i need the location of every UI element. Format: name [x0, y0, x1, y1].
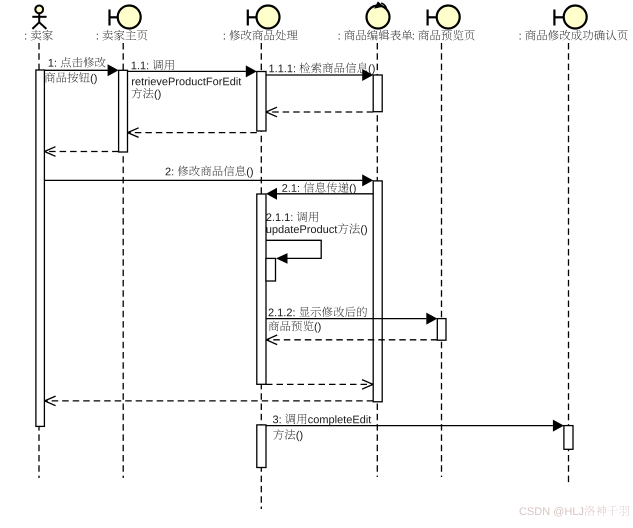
message 1.1.1 label — [269, 62, 374, 74]
boundary object 商品修改成功确认页 — [554, 6, 586, 29]
label : 修改商品处理 — [224, 30, 298, 41]
message 2.1 arrow — [277, 193, 373, 195]
label : 商品修改成功确认页 — [520, 30, 628, 41]
message 2.1 label — [282, 182, 355, 194]
message 3 arrow — [266, 425, 553, 427]
activation 修改商品处理 2 — [257, 194, 266, 384]
lifeline 商品修改成功确认页 — [568, 43, 570, 484]
message 1.1.1 arrow — [266, 74, 362, 76]
actor 卖家 — [32, 5, 46, 28]
message 2.1.1 self call — [266, 240, 321, 258]
boundary object 商品预览页 — [428, 6, 460, 29]
activation 商品修改成功确认页 — [564, 426, 573, 450]
lifeline 卖家 — [38, 43, 40, 478]
message 1 label — [45, 57, 106, 84]
label : 商品编辑表单 — [339, 30, 413, 41]
lifeline 商品预览页 — [441, 43, 443, 477]
activation 修改商品处理 self — [266, 258, 276, 281]
activation 商品预览页 — [437, 319, 446, 341]
activation 修改商品处理 1 — [257, 72, 266, 132]
activation 商品编辑表单 1 — [373, 75, 382, 112]
lifeline 商品编辑表单 — [376, 43, 378, 477]
control object 商品编辑表单 — [367, 1, 390, 28]
activation 卖家主页 — [119, 70, 128, 152]
return message 2.1 — [266, 383, 373, 385]
lifeline 卖家主页 — [122, 43, 124, 478]
return message 1.1 — [128, 132, 257, 134]
activation 修改商品处理 3 — [257, 425, 266, 468]
lifeline 修改商品处理 — [260, 43, 262, 509]
label : 卖家主页 — [97, 30, 147, 41]
message 2.1.2 arrow — [266, 318, 426, 320]
label : 卖家 — [25, 30, 53, 41]
boundary object 卖家主页 — [110, 6, 141, 29]
return message 1.1.1 — [266, 111, 373, 113]
message 3 label — [273, 414, 371, 441]
message 1.1 label — [132, 60, 242, 100]
return message 2 — [45, 400, 374, 402]
activation 卖家 — [36, 70, 45, 426]
watermark CSDN — [520, 505, 630, 516]
return message 2.1.2 — [266, 339, 437, 341]
message 1.1 arrow — [128, 70, 246, 72]
message 2.1.2 label — [269, 307, 367, 333]
message 2 arrow — [44, 179, 362, 181]
message 1 arrow — [44, 69, 107, 71]
boundary object 修改商品处理 — [248, 6, 280, 29]
return message 1 — [45, 151, 119, 153]
label : 商品预览页 — [413, 30, 475, 41]
activation 商品编辑表单 2 — [373, 181, 382, 402]
message 2.1.1 label — [266, 211, 367, 235]
message 2 label — [166, 166, 253, 178]
